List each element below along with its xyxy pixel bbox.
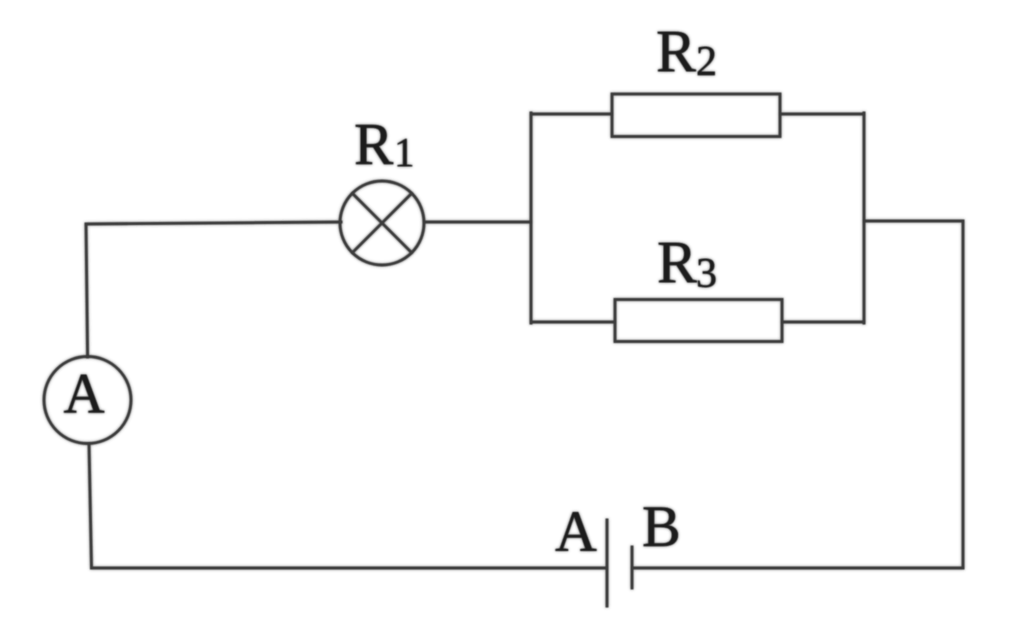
svg-text:R: R (656, 19, 696, 85)
wire parallel-block right vertical (863, 113, 866, 323)
svg-text:1: 1 (394, 129, 415, 175)
svg-text:R: R (657, 230, 697, 296)
svg-text:A: A (64, 363, 105, 426)
wire ammeter to bottom-left corner (89, 444, 92, 569)
wire right vertical (962, 221, 965, 568)
wire parallel-block left vertical (530, 113, 533, 323)
resistor R3 box (615, 300, 782, 342)
ammeter U1 circle (44, 357, 131, 444)
wire input to parallel block (lamp to left node) (424, 221, 531, 224)
wire bottom horizontal left (to battery plate A) (92, 567, 607, 570)
label R1 (354, 111, 415, 177)
wire R2 left lead (531, 113, 612, 116)
wire output of parallel block (864, 220, 963, 223)
svg-text:B: B (642, 494, 681, 559)
battery plate A (long electrode) (606, 520, 609, 606)
label R3 (657, 230, 717, 298)
battery plate B (short electrode) (631, 547, 634, 588)
wire bottom horizontal right (battery to right corner) (632, 567, 963, 570)
label R2 (656, 19, 717, 86)
svg-text:3: 3 (696, 251, 717, 297)
wire top-left horizontal (top node to lamp) (86, 222, 341, 224)
svg-text:2: 2 (696, 39, 717, 85)
wire R3 left lead (531, 321, 615, 324)
wire R2 right lead (780, 113, 864, 116)
wire R3 right lead (782, 321, 864, 324)
lamp R1 (circle with cross) (340, 181, 424, 265)
svg-text:R: R (354, 111, 394, 177)
svg-text:A: A (555, 499, 597, 564)
wire left vertical (top corner to ammeter) (86, 224, 88, 357)
resistor R2 box (612, 94, 780, 137)
